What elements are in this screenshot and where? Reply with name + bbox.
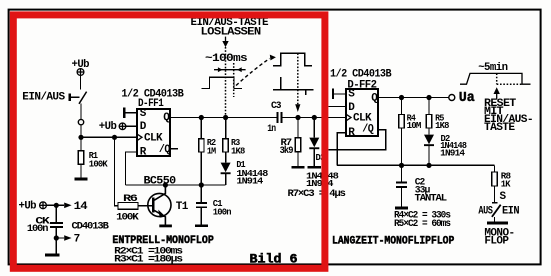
dashed curve arrow [236,59,270,86]
wire Q to R4 [401,98,403,115]
dotted line button release [225,47,227,116]
ground under R7 [291,166,304,169]
ground rail [337,164,494,166]
resistor R6 body [118,203,138,210]
wire node to D3 [313,118,315,138]
reset arrow shaft [496,93,498,100]
wire R6 to base [138,205,152,207]
svg-text:100K: 100K [116,212,139,224]
diode D2 [424,135,434,145]
svg-text:3k9: 3k9 [280,145,294,157]
wire R8 to switch [494,186,496,203]
wire R5 to D2 [428,128,430,135]
FF1 clock triangle [137,134,142,141]
switch contact tick [492,202,498,204]
dotted baseline [497,83,522,85]
svg-text:/Q: /Q [159,144,171,156]
wire FF1 Q output to C3 [170,117,277,119]
svg-text:R5×C2 = 60ms: R5×C2 = 60ms [394,218,451,230]
waveform 5min [460,73,531,84]
pushbutton lever [79,92,87,104]
svg-text:Bild 6: Bild 6 [250,253,298,267]
dotted vertical reset [496,73,498,84]
wire D3 to ground [313,149,315,166]
junction C3/D3 [312,115,317,120]
wire junction to FF1 CLK [81,136,137,138]
svg-text:7: 7 [74,234,80,246]
capacitor CK plates [50,222,63,224]
resistor R4 body [399,115,405,129]
wire S bar to FF1 [126,112,138,114]
junction Q/R2 [199,115,204,120]
svg-text:10M: 10M [407,121,421,131]
svg-text:1N914: 1N914 [440,149,465,159]
svg-text:BC550: BC550 [144,175,176,187]
wire FF2 R pin loop [337,133,346,166]
resistor R7 body [295,138,300,152]
svg-text:+Ub: +Ub [72,59,90,71]
flipflop U1 box D-FF1 [137,109,170,156]
waveform pulse 1 [201,77,242,88]
svg-text:EIN: EIN [502,206,519,218]
open contact circle [78,119,83,124]
dotted line pulse2 to C3 node [297,53,299,104]
wire FF1 R pin to collector line [126,152,138,185]
wire C1 to ground [200,208,202,224]
resistor R8 body [492,172,498,186]
svg-text:1N914: 1N914 [236,176,264,186]
resistor R2 body [199,139,204,152]
svg-text:T1: T1 [176,201,189,213]
svg-text:1n: 1n [267,123,276,135]
svg-text:1K8: 1K8 [231,147,245,157]
svg-text:S: S [500,191,507,203]
wire +Ub symbol to D pin [126,125,137,127]
wire down to R1 [80,137,82,151]
arrowhead pin 14 [64,203,71,209]
flipflop U2 box D-FF2 [346,89,378,136]
svg-text:1K: 1K [501,179,511,189]
svg-text:+Ub: +Ub [19,200,37,212]
capacitor C1 wire top [200,185,202,202]
wire D2 to rail [428,146,430,165]
wire D stub [329,106,346,108]
wire Q to R2 [200,118,202,139]
arrowhead into C3 node [295,104,300,112]
resistor R1 body [78,151,83,164]
wire R4 to rail [401,128,403,165]
junction rail/D2 [426,163,431,168]
svg-text:R: R [348,127,355,139]
wire C3 to FF2 CLK [283,117,346,119]
junction Q/R3 [223,115,228,120]
pushbutton EIN/AUS actuator bar [69,94,71,102]
svg-text:TASTE: TASTE [484,122,516,134]
arrowhead pin 7 [64,235,71,241]
wire /Q feedback [329,130,386,150]
svg-text:Q: Q [371,92,378,104]
wire down to CK cap [55,205,57,222]
arrowhead dashed curve [270,55,276,61]
wire FF2 Q output to Ua [378,97,449,99]
svg-text:LANGZEIT-MONOFLIPFLOP: LANGZEIT-MONOFLIPFLOP [332,236,455,248]
svg-text:/Q: /Q [362,124,374,136]
switch bottom bar [487,222,508,225]
svg-text:CD4013B: CD4013B [72,221,110,233]
ground under T1 emitter [159,225,172,228]
transistor T1 emitter lead [154,210,165,224]
junction Q/R4 [399,95,404,100]
svg-text:S: S [140,108,147,120]
wire node to R7 [297,118,299,138]
ground under D3 [308,166,321,169]
svg-text:EIN/AUS: EIN/AUS [22,92,65,104]
wire R3 to D1 [225,152,227,163]
wire R2 to line [200,152,202,185]
svg-text:100K: 100K [89,159,108,169]
FF2 S tie bar [332,88,334,99]
junction switch/CLK [78,135,83,140]
svg-text:1M: 1M [207,147,216,157]
junction Q/R5 [426,95,431,100]
junction CK bottom [54,235,59,240]
wire CK to pin7 node [55,228,57,238]
wire down to ground [55,238,57,254]
wire R1 to ground [80,164,82,177]
wire Q to R3 [225,118,227,139]
junction C3/R7 [295,115,300,120]
arrowhead measure right-point [218,67,223,72]
diode D3 [309,138,319,148]
svg-text:R7×C3 = 4µs: R7×C3 = 4µs [288,188,346,200]
waveform differentiated [273,77,313,95]
svg-text:R6: R6 [123,193,138,205]
power symbol +Ub at D pin [119,123,126,130]
wire collector line [126,184,226,186]
wire S bar to FF2 [334,93,346,95]
output circle Ua [449,95,455,101]
wire +Ub to pin14 arrow [46,204,64,206]
svg-text:C3: C3 [271,100,281,112]
capacitor C3 plates [277,112,279,123]
T1 emitter arrow [158,210,165,218]
ground bottom left [45,254,60,257]
svg-text:Q: Q [163,112,170,124]
svg-text:1K8: 1K8 [435,121,449,131]
svg-text:FLOP: FLOP [484,236,509,248]
resistor R5 body [426,115,432,129]
transistor T1 base bar [152,197,155,212]
wire Q to R5 [428,98,430,115]
capacitor C2 plates [396,182,407,184]
FF2 clock triangle [346,114,351,121]
wire pin7 node to arrow [56,237,64,239]
resistor R3 body [223,139,228,152]
svg-text:R3×C1 =180µs: R3×C1 =180µs [114,253,183,265]
svg-text:+Ub: +Ub [99,121,117,133]
dotted line pulse end [233,63,235,97]
arrowhead LOSLASSEN [222,41,228,47]
junction collector [163,182,168,187]
svg-text:AUS: AUS [478,206,493,218]
reset arrowhead [494,87,500,94]
capacitor C1 plates [196,202,207,204]
power symbol +Ub bottom [40,202,47,209]
svg-text:CLK: CLK [144,132,163,144]
waveform pulse 2 [273,53,312,65]
wire +Ub to switch [80,75,82,89]
wire circle to junction [80,125,82,138]
svg-text:LOSLASSEN: LOSLASSEN [201,27,261,39]
diode D1 [221,163,231,173]
wire junction down to R6 [115,137,119,206]
pushbutton stem [71,96,80,98]
measure line 100ms [214,69,246,71]
switch bottom stub [494,217,496,222]
wire FF1 /Q stub [170,148,178,150]
svg-text:14: 14 [74,201,88,213]
junction rail/C2 [399,163,404,168]
junction CLK/R6 [112,135,117,140]
wire D1 to line [225,174,227,185]
wire C2 to ground [401,188,403,207]
FF1 S tie bar [123,108,125,119]
svg-text:Ua: Ua [459,91,475,106]
junction R2/C1 [199,182,204,187]
ground under C1 [195,224,208,227]
svg-text:R: R [140,146,147,158]
wire rail to C2 [401,165,403,181]
transistor T1 collector lead [154,185,165,200]
red highlight box Bild 6 [13,15,325,268]
power symbol +Ub top [77,69,84,76]
wire rail to R8 [494,165,496,172]
ground under R1 [74,178,87,181]
switch AUS/EIN lever [492,205,501,217]
junction CK top [54,203,59,208]
ground under C2 [395,207,408,210]
arrow shaft below LOSLASSEN [225,37,227,41]
wire lever to contact circle [80,104,82,120]
svg-text:TANTAL: TANTAL [415,193,447,205]
transistor T1 circle [148,193,171,216]
arrowhead measure left-point [237,67,242,72]
svg-text:~5min: ~5min [478,62,507,74]
svg-text:~100ms: ~100ms [205,53,247,65]
svg-text:100n: 100n [213,207,231,217]
svg-text:100n: 100n [27,223,48,235]
wire R7 to ground [297,152,299,166]
svg-text:S: S [348,89,355,101]
